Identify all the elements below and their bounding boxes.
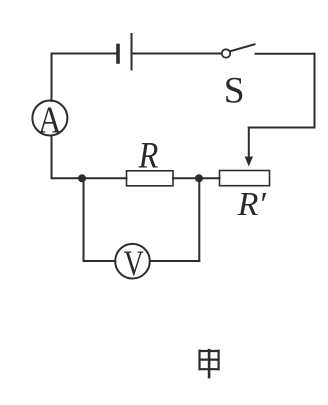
svg-text:V: V [124, 244, 144, 283]
battery cell B (short thick plate) [116, 46, 120, 63]
voltmeter branch right vertical wire [198, 178, 200, 261]
rheostat R' slider arrowhead [245, 157, 253, 167]
wire switch to top-right corner [256, 53, 315, 55]
rheostat R' slider arrow shaft [248, 128, 250, 159]
wire resistor R to node B [173, 177, 199, 179]
wire battery to switch [133, 53, 222, 55]
node A junction dot [78, 174, 86, 182]
svg-text:S: S [224, 70, 245, 111]
node B junction dot [195, 174, 203, 182]
wire top-left horizontal [52, 53, 117, 55]
svg-text:A: A [38, 99, 62, 141]
wire node A to resistor R [82, 177, 127, 179]
voltmeter branch bottom-left wire [84, 260, 116, 262]
voltmeter V1 circle [115, 244, 150, 279]
wire ammeter bottom to mid-left corner [51, 136, 53, 179]
wire node B to rheostat [199, 177, 220, 179]
wire left corner to node A [52, 177, 83, 179]
switch S lever [230, 44, 255, 51]
wire left vertical (top corner to ammeter top) [51, 54, 53, 101]
svg-text:R: R [138, 135, 159, 176]
svg-text:R′: R′ [237, 186, 267, 223]
voltmeter branch left vertical wire [83, 178, 85, 261]
voltmeter branch bottom-right wire [150, 260, 200, 262]
wire horizontal to slider [249, 127, 315, 129]
caption glyph "jia" (drawn strokes) [199, 349, 220, 379]
rheostat R' body [220, 171, 270, 186]
resistor R body [127, 171, 174, 186]
ammeter A1 circle [32, 101, 67, 136]
switch S pivot circle [222, 49, 230, 57]
battery cell B (tall thin plate) [131, 34, 133, 70]
wire right vertical [314, 54, 316, 128]
